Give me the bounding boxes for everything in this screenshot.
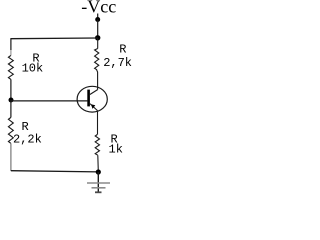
- wire bottom horizontal: [11, 171, 98, 172]
- svg-text:2,7k: 2,7k: [103, 56, 132, 70]
- wire right rail lower to ground node: [97, 155, 100, 171]
- resistor R3 2,7k zigzag: [95, 49, 99, 70]
- wire left rail upper: [10, 38, 12, 50]
- transistor Q1 base bar: [87, 90, 90, 107]
- transistor Q1 emitter arrow (PNP, points toward base): [91, 104, 95, 109]
- transistor Q1 emitter diagonal: [90, 104, 98, 111]
- transistor Q1 collector diagonal: [90, 90, 98, 95]
- wire left rail lower: [10, 143, 12, 171]
- wire from terminal dot to node A: [97, 20, 99, 39]
- resistor R1 10k zigzag: [8, 56, 13, 80]
- wire collector vertical: [97, 70, 98, 90]
- wire stub from -Vcc label: [97, 14, 99, 20]
- wire right rail upper between node A and R3: [97, 38, 99, 49]
- wire emitter vertical: [97, 111, 99, 135]
- junction dot node A: [95, 35, 100, 40]
- resistor R2 2,2k zigzag: [8, 118, 13, 144]
- terminal dot below -Vcc: [95, 17, 100, 22]
- ground stub vertical: [97, 172, 99, 193]
- ground bar 2: [92, 187, 106, 189]
- svg-text:R: R: [119, 43, 126, 57]
- ground bar 3: [95, 191, 102, 193]
- svg-text:10k: 10k: [22, 62, 44, 76]
- svg-text:-Vcc: -Vcc: [81, 0, 116, 17]
- wire left rail between R1 and node B: [10, 79, 12, 100]
- svg-text:2,2k: 2,2k: [13, 133, 42, 147]
- wire base horizontal from node B to transistor: [11, 100, 87, 102]
- wire left rail between node B and R2: [10, 100, 12, 118]
- wire top horizontal: [11, 37, 98, 40]
- junction dot ground node: [96, 169, 101, 174]
- resistor R4 1k zigzag: [95, 135, 99, 156]
- ground bar 1: [87, 182, 110, 184]
- transistor Q1 PNP body ellipse: [77, 86, 107, 112]
- junction dot node B: [9, 98, 14, 103]
- svg-text:1k: 1k: [109, 143, 123, 157]
